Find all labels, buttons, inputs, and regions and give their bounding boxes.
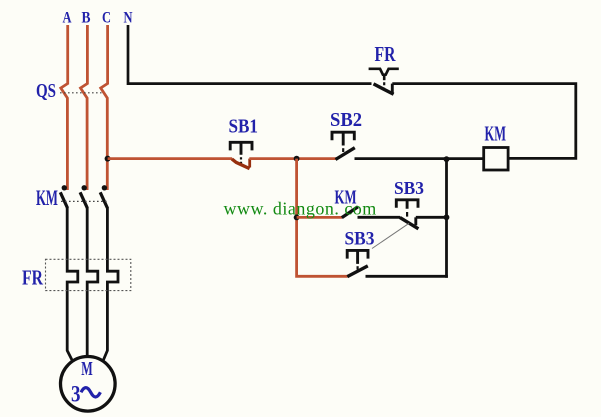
node tap on phase C xyxy=(105,156,111,162)
svg-text:SB2: SB2 xyxy=(330,109,362,131)
node junction left branch xyxy=(294,156,300,162)
wire SB2 to KM coil xyxy=(355,157,484,160)
wire SB3 NO to right rail xyxy=(366,275,448,278)
KM auxiliary NO blade xyxy=(342,207,358,218)
FR right terminal tick xyxy=(391,84,394,94)
node junction right top xyxy=(444,156,450,162)
FR actuator dotted link xyxy=(383,75,386,80)
SB1 right terminal tick xyxy=(248,159,251,168)
motor feeder wire C with FR heater C xyxy=(103,207,118,360)
SB2 NO blade xyxy=(336,148,355,160)
SB3 mechanical linkage line xyxy=(372,223,409,248)
wire phase A with QS pole A xyxy=(61,25,68,190)
SB3 NO blade xyxy=(347,266,368,277)
SB2 plunger xyxy=(332,132,354,145)
wire neutral N to FR contact xyxy=(128,25,372,84)
contactor coil KM box xyxy=(484,148,508,171)
svg-text:B: B xyxy=(82,10,91,27)
SB3 NC plunger dotted link xyxy=(406,212,408,217)
svg-text:FR: FR xyxy=(375,42,397,66)
motor M circle xyxy=(61,357,116,412)
svg-text:N: N xyxy=(124,10,133,27)
svg-text:QS: QS xyxy=(36,80,56,102)
wire FR to KM coil right side xyxy=(392,84,576,159)
svg-text:FR: FR xyxy=(22,265,44,289)
wire KM aux to SB3 NC xyxy=(358,216,401,219)
wire phase B with QS pole B xyxy=(81,25,88,190)
QS linkage dotted line xyxy=(60,92,102,94)
SB3 NO plunger dotted link xyxy=(357,266,359,269)
thermal relay FR heater dashed box xyxy=(46,259,131,290)
KM main contact pole C dot xyxy=(102,185,107,190)
wire branch to KM aux xyxy=(297,216,342,219)
wire left branch vertical xyxy=(297,159,348,277)
svg-text:SB1: SB1 xyxy=(229,116,259,138)
wire SB3 NC to right rail xyxy=(416,216,447,219)
KM main contact pole B blade xyxy=(80,192,87,208)
svg-text:www. diangon. com: www. diangon. com xyxy=(224,199,377,219)
svg-text:SB3: SB3 xyxy=(345,229,375,250)
svg-text:3: 3 xyxy=(71,381,81,407)
SB3 NC right terminal tick xyxy=(414,217,417,225)
SB1 plunger dotted link xyxy=(240,157,242,163)
motor tilde sine symbol xyxy=(81,388,100,397)
wire phase C with QS pole C xyxy=(101,25,108,190)
SB2 plunger dotted link xyxy=(342,148,344,152)
KM main linkage dotted line xyxy=(61,200,107,202)
SB3 NO plunger xyxy=(347,250,368,264)
svg-text:KM: KM xyxy=(36,185,58,210)
svg-text:SB3: SB3 xyxy=(394,178,424,198)
FR NC blade xyxy=(374,84,394,94)
wire tap C to SB1 xyxy=(108,157,232,160)
svg-text:M: M xyxy=(81,358,93,380)
svg-text:KM: KM xyxy=(485,121,507,145)
KM main contact pole B dot xyxy=(82,185,87,190)
SB3 NC blade xyxy=(400,217,419,228)
KM main contact pole A blade xyxy=(60,192,67,208)
node junction right middle xyxy=(444,214,450,220)
KM main contact pole C blade xyxy=(100,192,107,208)
KM main contact pole A dot xyxy=(62,185,67,190)
svg-text:A: A xyxy=(63,10,72,27)
node junction KM aux branch xyxy=(294,215,300,221)
wire SB1 to SB2 xyxy=(249,157,336,160)
SB3 NC plunger xyxy=(396,200,418,209)
SB1 NC blade xyxy=(232,159,250,169)
motor feeder wire A with FR heater A xyxy=(67,207,78,360)
wire right rail vertical xyxy=(445,159,448,278)
SB1 plunger xyxy=(230,142,252,155)
svg-text:C: C xyxy=(102,10,111,27)
FR NC contact actuator xyxy=(369,69,399,75)
motor feeder wire B with FR heater B xyxy=(87,207,98,356)
